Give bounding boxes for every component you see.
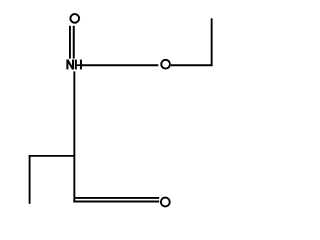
atom O2 (ether oxygen)	[161, 60, 170, 69]
atom O1 (carbonyl oxygen, top)	[70, 14, 79, 23]
bond C3–C3' (branch wire down)	[29, 155, 31, 204]
bond N=O1 double bond	[69, 26, 71, 59]
bond C4–C5 (ethyl, wire up)	[211, 18, 213, 66]
atom O3 (aldehyde oxygen)	[161, 198, 170, 207]
bond N–C2 (wire down)	[73, 71, 75, 202]
bond C2–C3 (branch wire)	[29, 155, 75, 157]
bond N–O2 (wire)	[82, 64, 158, 66]
bond O2–C4 (wire)	[171, 64, 213, 66]
bond C1=O3 double bond (aldehyde)	[73, 201, 159, 203]
atom N (NH label): letter H	[76, 60, 81, 70]
atom N (NH label): letter N	[67, 60, 73, 70]
